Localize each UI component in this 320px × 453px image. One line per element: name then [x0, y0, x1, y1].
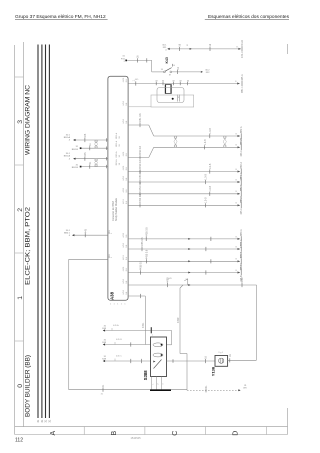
switch box S388 outline — [151, 337, 167, 377]
svg-text:BB2:A: BB2:A — [240, 162, 243, 169]
grid row divider 0/bottom — [15, 340, 24, 342]
svg-text:Body Builder Module: Body Builder Module — [115, 197, 118, 221]
valve Y138 box — [215, 356, 228, 367]
wire vertical drop x180 — [180, 285, 183, 288]
svg-text:1.0-B: 1.0-B — [209, 185, 212, 191]
svg-text:WIRING DIAGRAM NC: WIRING DIAGRAM NC — [24, 85, 31, 155]
wire 15 feed terminal — [125, 60, 127, 62]
svg-text:BB4:A: BB4:A — [240, 239, 243, 246]
svg-text:BB1:A: BB1:A — [115, 140, 118, 147]
svg-text:A38: A38 — [109, 291, 114, 300]
svg-text:BB4:A: BB4:A — [240, 251, 243, 258]
wire row1 end arrow — [237, 82, 240, 84]
frame left outer border — [14, 45, 16, 435]
svg-text:S388: S388 — [143, 370, 148, 380]
svg-text:1.0-B: 1.0-B — [205, 197, 208, 203]
svg-text:445 C: 445 C — [116, 356, 122, 358]
svg-text:K43: K43 — [165, 57, 169, 63]
loop wire vertical left — [68, 259, 70, 389]
wire drop into S388 right pin — [171, 331, 173, 345]
loop wire right vertical — [256, 285, 258, 360]
svg-text:BB1:A: BB1:A — [115, 159, 118, 166]
wire row lower 1 — [128, 238, 240, 240]
svg-text:30.2A: 30.2A — [241, 39, 244, 45]
grid row divider 1/0 — [15, 252, 24, 254]
power bus bar 4 — [48, 45, 50, 419]
wire stub to enclosure — [128, 106, 151, 108]
twisted pair symbol left-B — [95, 159, 98, 162]
svg-text:3 g 1: 3 g 1 — [218, 352, 224, 354]
wire row BB pin 1 — [128, 83, 240, 85]
wire row lower 2 — [128, 248, 240, 250]
svg-text:2: 2 — [17, 208, 24, 212]
svg-text:8: 8 — [178, 97, 179, 99]
wire S388 to Y138 — [167, 360, 216, 362]
svg-text:BB1:A: BB1:A — [115, 151, 118, 158]
bottom band divider 4 — [265, 427, 267, 435]
wire row mid 4 — [128, 204, 240, 206]
svg-text:A: A — [50, 431, 57, 436]
svg-text:BB2:A: BB2:A — [240, 126, 243, 133]
svg-text:0: 0 — [17, 384, 24, 388]
svg-text:4453 0.8: 4453 0.8 — [139, 170, 142, 180]
svg-text:1.0-B: 1.0-B — [205, 174, 208, 180]
svg-text:BB2:A: BB2:A — [240, 172, 243, 179]
wire 30.1 end arrow — [238, 48, 241, 50]
svg-text:4459: 4459 — [177, 317, 180, 323]
svg-text:4453 0.8: 4453 0.8 — [139, 193, 142, 203]
bottom band divider 2 — [144, 427, 146, 435]
twisted pair symbol left — [174, 136, 177, 139]
svg-text:BB1:A: BB1:A — [64, 136, 71, 139]
svg-text:445 A: 445 A — [113, 324, 119, 327]
svg-text:446-A: 446-A — [240, 150, 243, 157]
svg-text:4455 0.8: 4455 0.8 — [146, 249, 149, 259]
wire row mid 3 — [128, 193, 240, 195]
svg-text:4451 0.8: 4451 0.8 — [139, 113, 142, 123]
relay junction dot — [172, 98, 174, 100]
power bus bar 3 — [45, 45, 47, 419]
svg-text:4459: 4459 — [241, 277, 244, 283]
wire branch stub above row — [187, 279, 189, 286]
svg-text:4453 0.8: 4453 0.8 — [139, 159, 142, 169]
S388 contact oval 1 — [153, 343, 163, 347]
wire row lower 3 — [128, 260, 240, 262]
svg-text:1.0-B: 1.0-B — [209, 163, 212, 169]
svg-text:BB1:B: BB1:B — [72, 149, 79, 151]
frame left inner border — [22, 42, 24, 427]
svg-text:1: 1 — [17, 296, 24, 300]
svg-text:4453 0.8: 4453 0.8 — [139, 182, 142, 192]
S388 bottom pins — [151, 377, 153, 390]
wire row 285 from A38 — [128, 284, 256, 286]
relay pin ticks — [176, 95, 178, 102]
svg-text:Grupo 37 Esquema elétrico FM,: Grupo 37 Esquema elétrico FM, FH, NH12 — [15, 14, 106, 20]
svg-text:1: 1 — [152, 335, 153, 337]
svg-text:Y138: Y138 — [211, 366, 216, 376]
svg-text:4455 0.8: 4455 0.8 — [141, 237, 144, 247]
svg-text:BB2:A: BB2:A — [240, 184, 243, 191]
wire 30.1 mid arrow — [190, 48, 192, 50]
svg-text:3: 3 — [17, 120, 24, 124]
svg-text:445-A: 445-A — [240, 208, 243, 215]
svg-text:445: 445 — [84, 228, 87, 233]
svg-text:BB1:A: BB1:A — [115, 132, 118, 139]
splice mark on wire 330 — [150, 327, 152, 333]
svg-text:BB2:B: BB2:B — [241, 137, 243, 144]
svg-text:4452 0.8: 4452 0.8 — [139, 145, 142, 155]
frame right border top segment — [287, 44, 289, 54]
svg-text:1544545: 1544545 — [130, 436, 141, 440]
wire row lower 4 — [128, 272, 240, 274]
relay housing rounded box — [157, 88, 184, 103]
wire jog at 353.5 — [180, 353, 187, 355]
svg-text:445-A: 445-A — [241, 74, 244, 81]
relay K-BB coil — [165, 85, 171, 94]
svg-text:BB1:B: BB1:B — [72, 167, 79, 169]
S388 contact oval 2 — [153, 353, 163, 357]
frame right border bottom segment — [287, 408, 289, 435]
bottom band bottom line — [15, 434, 288, 436]
svg-text:445 B: 445 B — [116, 339, 122, 341]
svg-text:BB1:A: BB1:A — [64, 155, 71, 158]
wire pair from A38 pin (slant upper) — [128, 124, 149, 126]
dashed wire to ground point — [187, 389, 241, 391]
svg-text:C: C — [172, 431, 179, 436]
wire K43 end arrow — [201, 71, 203, 73]
power bus bar 2 — [41, 45, 43, 419]
wire vertical drop x187 — [186, 354, 188, 391]
bottom band divider 3 — [205, 427, 207, 435]
wire row 296 from A38 — [128, 295, 145, 297]
S388 contact diagonal — [154, 360, 162, 369]
svg-text:BB1:1: BB1:1 — [242, 86, 244, 93]
svg-text:4455 0.8: 4455 0.8 — [145, 227, 148, 237]
wire vertical x145 — [144, 296, 146, 345]
wire row 259 left segment to loop — [69, 258, 108, 260]
svg-text:445: 445 — [84, 133, 87, 138]
svg-text:D: D — [232, 431, 239, 436]
wire Y138 right pin loop — [228, 359, 257, 361]
wire pair from A38 pin (slant lower) — [128, 157, 149, 159]
wire row mid 2 — [128, 181, 240, 183]
bottom band divider 1 — [83, 427, 85, 435]
wire 15 corner down — [151, 60, 153, 72]
svg-text:B: B — [111, 431, 118, 436]
svg-text:BODY BUILDER (BB): BODY BUILDER (BB) — [24, 355, 31, 417]
wire row mid 1 — [128, 171, 240, 173]
svg-text:BB2:A: BB2:A — [240, 195, 243, 202]
svg-text:1.0-B: 1.0-B — [209, 128, 212, 134]
wire 15 horizontal to K43 — [127, 59, 152, 61]
svg-text:4451: 4451 — [142, 322, 145, 328]
twisted pair wire lower — [154, 146, 240, 148]
component outer enclosure — [151, 95, 194, 107]
svg-text:ELCE-CK; BBM, PTO2: ELCE-CK; BBM, PTO2 — [24, 206, 31, 285]
svg-text:112: 112 — [15, 438, 23, 444]
svg-text:Esquemas elétricos dos compone: Esquemas elétricos dos componentes — [208, 14, 290, 20]
power bus bar 1 — [37, 45, 39, 419]
svg-text:1.0-B: 1.0-B — [204, 139, 207, 145]
svg-text:4459: 4459 — [167, 277, 170, 283]
valve Y138 symbol — [219, 358, 224, 363]
wire from F31 arrow — [167, 48, 169, 50]
twisted pair wire upper — [154, 135, 240, 137]
twisted pair end arrows — [238, 135, 241, 137]
wire K43 to F32 — [172, 71, 201, 73]
bottom band top line — [15, 426, 288, 428]
loop wire bottom horizontal — [69, 389, 187, 391]
svg-text:445: 445 — [84, 152, 87, 157]
ground bar under S388 — [150, 389, 171, 391]
wire 30.1 horizontal — [170, 48, 241, 50]
grid row divider 3/2 — [15, 76, 24, 78]
connector box A38 outline — [108, 76, 128, 300]
grid row divider 2/1 — [15, 164, 24, 166]
svg-text:BB4:A: BB4:A — [240, 229, 243, 236]
svg-text:BB4:A: BB4:A — [240, 263, 243, 270]
svg-text:F32-1: F32-1 — [242, 51, 244, 58]
twisted pair symbol right — [224, 136, 227, 139]
svg-text:4455 0.8: 4455 0.8 — [139, 260, 142, 270]
twisted pair symbol left-A — [95, 140, 98, 143]
